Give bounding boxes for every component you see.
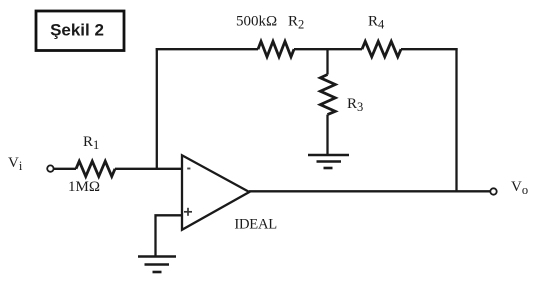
label Vi (8, 155, 23, 173)
label Vo (511, 179, 528, 197)
svg-text:IDEAL: IDEAL (234, 216, 277, 232)
label 500kΩ (236, 13, 277, 29)
resistor R1 (76, 161, 115, 176)
wire Vi to R1 (54, 168, 77, 170)
wire output (249, 190, 491, 192)
terminal Vi (47, 165, 53, 171)
wire noninverting input (156, 215, 183, 256)
wire right vertical (455, 48, 457, 191)
ground bottom left (138, 257, 176, 273)
resistor R2 (258, 41, 294, 56)
value 1MΩ (68, 179, 100, 195)
svg-text:Şekil 2: Şekil 2 (50, 21, 104, 40)
wire node B to R3 (326, 49, 328, 74)
label R1 (83, 134, 99, 152)
op-amp minus sign (187, 168, 190, 170)
wire node B to R4 (328, 48, 363, 50)
svg-text:1MΩ: 1MΩ (68, 179, 100, 195)
svg-text:500kΩ: 500kΩ (236, 13, 277, 29)
ground under R3 (308, 155, 349, 168)
wire R4 to top right corner (401, 48, 458, 50)
resistor R3 (320, 75, 335, 115)
wire R2 to node B (294, 48, 328, 50)
terminal Vo (490, 188, 496, 194)
label R2 (288, 13, 304, 31)
op-amp plus sign (184, 208, 192, 216)
wire R3 to ground (326, 115, 328, 155)
wire left feedback vertical (156, 48, 158, 169)
label R3 (347, 96, 363, 114)
label IDEAL (234, 216, 277, 232)
wire top left segment (156, 48, 258, 50)
figure label box "Şekil 2" (36, 11, 124, 51)
wire R1 to inverting node (115, 168, 183, 170)
resistor R4 (362, 41, 401, 56)
op-amp U1 (182, 155, 249, 230)
label R4 (368, 13, 385, 31)
